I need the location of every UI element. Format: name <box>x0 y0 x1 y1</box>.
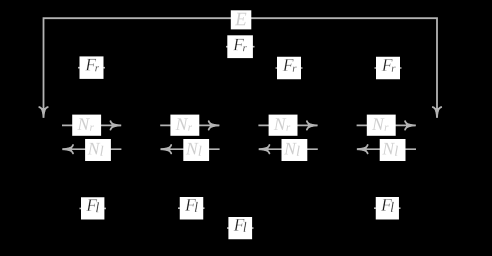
bracket arrowhead right <box>433 107 441 118</box>
arrow N_r 1 <box>62 121 121 129</box>
hidden force line under F_r center <box>226 46 255 48</box>
arrow N_l 2 <box>161 145 220 153</box>
hidden force line under F_r 4 <box>375 67 402 69</box>
arrow N_r 2 <box>160 121 219 129</box>
label F_l 1 <box>81 197 104 219</box>
label N_l 3 <box>282 139 308 161</box>
label F_r 3 <box>277 57 301 80</box>
label F_l 4 <box>376 197 399 220</box>
hidden force line under F_r 3 <box>276 67 303 69</box>
label F_l center <box>228 217 252 239</box>
label E <box>231 10 252 29</box>
hidden force line under F_l 2 <box>178 207 205 209</box>
label N_l 4 <box>380 139 406 161</box>
arrow N_l 1 <box>62 145 121 153</box>
arrow N_r 3 <box>258 121 317 129</box>
hidden force line under F_l center <box>227 227 254 229</box>
hidden force line under F_l 1 <box>80 207 107 209</box>
bracket E path <box>44 18 438 117</box>
label N_r 2 <box>170 115 199 136</box>
label N_r 3 <box>269 115 298 136</box>
label N_l 2 <box>183 139 209 161</box>
label F_r center <box>227 35 253 58</box>
label F_r 1 <box>80 56 104 79</box>
label N_r 4 <box>367 115 396 136</box>
hidden force line under F_r 1 <box>78 67 105 69</box>
arrow N_l 3 <box>259 145 318 153</box>
label N_r 1 <box>72 115 101 136</box>
arrow N_r 4 <box>357 121 416 129</box>
label F_l 2 <box>180 197 204 220</box>
bracket arrowhead left <box>39 107 47 118</box>
label N_l 1 <box>85 139 111 161</box>
label F_r 4 <box>376 57 400 80</box>
hidden force line under F_l 4 <box>374 207 401 209</box>
arrow N_l 4 <box>357 145 416 153</box>
